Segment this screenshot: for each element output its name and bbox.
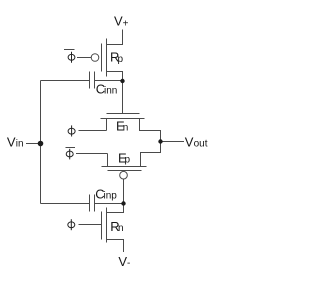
label Rn [110,219,123,234]
capacitor Cinp [90,195,95,212]
svg-text:V: V [7,135,16,150]
label phi (middle) [68,125,75,136]
wire Cinp right plate to node Y [95,203,124,205]
svg-text:out: out [194,139,208,150]
Ep left source lead [107,154,109,167]
svg-text:inn: inn [104,86,117,97]
label Ep [118,151,131,166]
Vin vertical bus wire [40,81,42,204]
wire output node to Vout [161,141,185,143]
wire phi-bar to Ep source [76,153,108,155]
Cinp right plate [94,195,96,212]
svg-text:-: - [127,258,130,269]
label Cinn [96,82,118,97]
node Y junction dot [121,201,125,205]
wire Ep gate bubble down to node Y [123,179,125,204]
label Cinp [95,187,117,202]
Ep gate bar [108,170,142,172]
node Vout junction dot [158,139,162,143]
En left source lead [106,119,108,131]
Cinp left plate [89,195,91,212]
wire phi to En source [79,130,107,132]
phi-bar overline (middle clock) [66,147,76,149]
svg-text:in: in [16,139,24,150]
Rn source lead wire down to V- [107,240,124,253]
wire Cinn right plate to node X [95,80,123,82]
transistor Ep [102,142,161,180]
Ep PMOS bubble [120,171,128,179]
Rp source lead wire [107,72,123,82]
transistor Rn [79,204,124,253]
svg-text:p: p [118,54,124,65]
Ep channel bar [102,166,147,168]
Cinn left plate [89,72,91,89]
label En [116,119,128,134]
Rp gate bar [101,44,103,72]
label phi-bar (middle) [66,149,73,160]
Cinn right plate [94,72,96,89]
En right drain lead wire to output node [140,119,161,142]
capacitor Cinn [90,72,95,89]
Rp channel bar [106,39,108,77]
Rn channel bar [106,208,108,243]
label Rp [110,50,124,66]
wire node X down to En gate [122,81,124,114]
svg-text:inp: inp [104,191,118,202]
capacitor Cinp left wire from Vin line [41,203,90,205]
label V+ [114,14,129,30]
node Vin junction dot [38,141,44,147]
label phi (bottom) [68,219,75,230]
Rp PMOS bubble [91,54,99,62]
svg-text:n: n [123,123,129,134]
node X junction dot [120,79,124,83]
svg-text:p: p [125,155,131,166]
Rn drain lead wire up to node Y [107,204,124,213]
svg-text:n: n [118,223,124,234]
Rn gate wire from phi [79,224,102,226]
capacitor Cinn left wire from Vin line [41,80,90,82]
power V+ rail stem wire [107,30,123,45]
Rn gate bar [101,212,103,240]
Ep right drain lead wire from output node [141,142,161,167]
label V- [118,254,130,269]
transistor En [101,114,161,142]
Vin input wire [26,143,41,145]
label Vout [185,135,208,150]
svg-text:+: + [123,19,129,30]
Rp gate wire from phi-bar [77,57,91,59]
svg-text:V: V [185,135,194,150]
transistor Rp [77,39,123,82]
En channel bar [101,118,145,120]
label Vin [7,135,24,150]
label phi-bar (top) [68,52,75,63]
En gate bar [107,113,140,115]
phi-bar overline (top clock) [64,49,75,51]
